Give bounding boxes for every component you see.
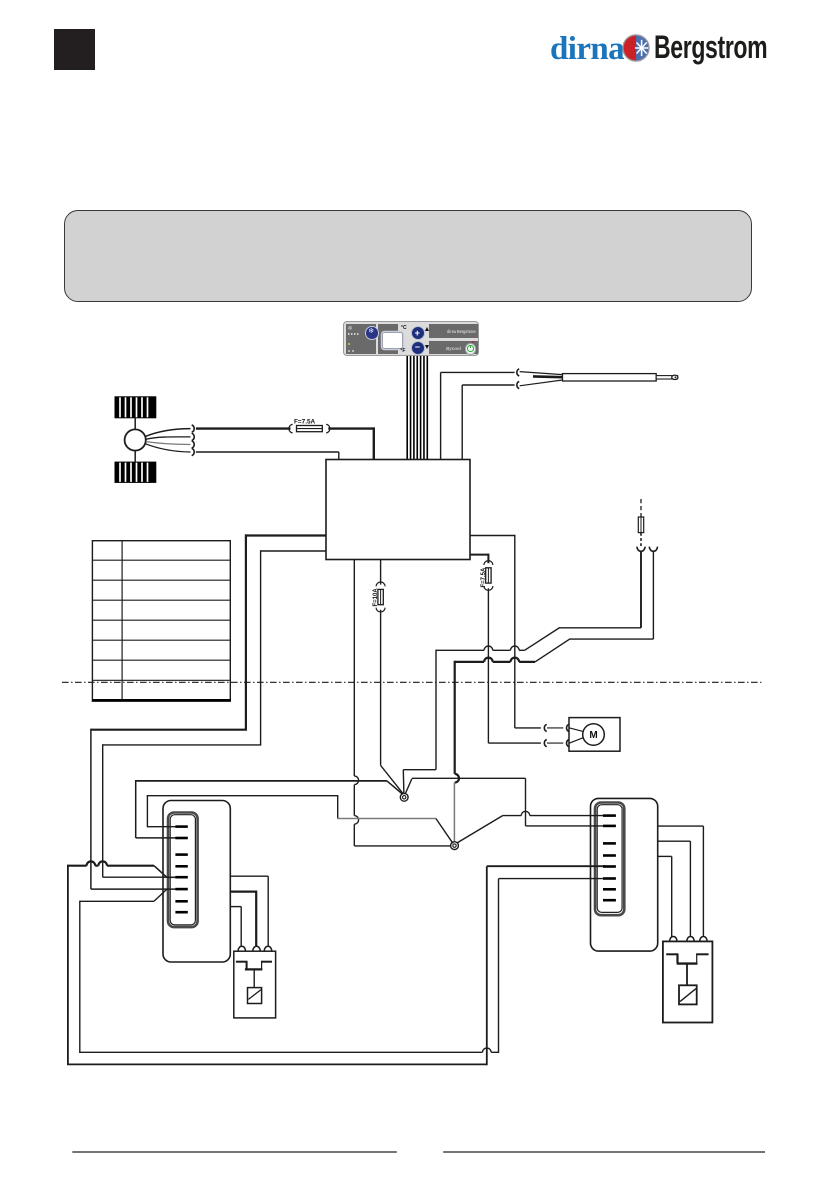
probe taper bottom [520,380,563,386]
ECU box [326,460,470,560]
svg-text:F=7.5A: F=7.5A [294,419,316,426]
motor lead 1 [570,728,584,732]
up triangle [425,327,429,331]
motor hook 1b [567,724,569,731]
logo text dirna [550,31,624,68]
wire ECU to node2 via X1 [354,560,358,846]
wire supply fan 4 [146,444,191,452]
temp up button [411,326,425,340]
lcd display [382,332,403,349]
wire ECU to probe 2 [461,385,463,460]
socket cup right [649,547,657,552]
wire fuse F1 to ECU [328,427,374,429]
supply circle B+ [125,429,146,450]
svg-text:F=7.5A: F=7.5A [481,567,487,588]
fuse F1 clip right [326,424,330,433]
grey rounded banner [64,210,752,302]
footer rule left [72,1151,397,1153]
wire y781 horizontal [135,780,387,782]
relay K2 contact [236,961,248,963]
black corner square [54,29,95,70]
degF label [400,348,405,354]
wire y778 horizontal [412,777,526,779]
wire X2 to K2 86 [230,906,241,908]
probe bulb stub [656,376,677,379]
relay K2 hook 3 [264,946,271,951]
power red led [472,341,474,343]
connector X2 insert inner [170,815,195,925]
wire socket left down [640,551,642,628]
battery hatch block top [115,397,156,418]
relay K2 box [234,951,276,1018]
connector hook K1 pin2 [192,433,195,440]
wire node2 diag to pin1R [456,816,502,844]
wire supply pin4 to ECU [196,451,339,453]
fuse F1 clip left [289,424,293,433]
wire thick vertical to node2 [455,661,459,783]
legend table [92,541,230,702]
wire C up right [498,879,500,1053]
socket cup left [637,547,645,552]
dirna Bergstrom logo [548,30,768,66]
wire D to right pin5 [487,865,606,867]
wire ECU to fuse F2 [380,560,382,585]
panel right upper block [429,324,479,338]
wire supply fan 1 [146,429,191,437]
wire ECU-B down to pin5 [102,744,104,877]
centerline [62,681,761,683]
wire motor link 1 [547,727,563,729]
lower dots [348,350,350,352]
control panel HMI [343,321,479,356]
wire ECU-A down to pin6 [90,729,92,890]
dashed lead to socket [640,533,642,547]
connector hook K1 pin1 [192,425,195,432]
wire supply fan 2 [146,437,191,439]
battery hatch block bottom [115,462,156,482]
fuse F1 body [297,426,323,432]
panel left keypad block [346,324,376,354]
wire C diag to pin6 [154,889,167,901]
connector X3 pins [603,814,616,817]
motor circle M [583,724,605,746]
panel display block [378,324,399,354]
relay K3 box [663,941,713,1022]
wire pin1L loop [147,826,178,828]
wire motor link 2 [547,742,563,744]
bycool italic text [446,346,461,351]
wire D left down [67,865,69,1065]
wire x525 down to pin2R [525,778,527,826]
wire diag to node2 [436,819,453,844]
relay K2 coil [248,988,262,1004]
wire fuse F2 to node1 [380,610,382,766]
wire C to right pin6 [499,878,607,880]
probe taper top [520,372,563,375]
svg-text:F=10A: F=10A [373,588,379,607]
wire pin1L to node2 gray [338,818,436,820]
connector X3 shell [591,798,658,951]
fuse F3 body [486,568,491,583]
wire socket left horizontal [436,646,525,650]
snow mode icon [348,325,353,332]
thermal fuse TH body [638,517,643,533]
temp down button [411,341,425,355]
wire socket left to node1 [435,650,437,770]
relay K3 hook 1 [670,937,677,942]
footer rule right [443,1151,765,1153]
wire D horizontal thick [68,861,154,865]
wire D up right [486,866,488,1065]
wire ECU to probe 1 [440,372,442,460]
snowflake button [365,326,379,340]
node junction N1 [400,793,408,801]
fuse F3 clip bottom [484,586,493,590]
connector X3 insert inner [597,805,622,913]
fuse F2 clip bottom [376,608,385,612]
fuse F3 clip top [484,561,493,565]
wire C bottom [79,1048,498,1052]
wire y781 from pin2 riser [135,781,137,838]
motor box [569,718,620,752]
relay K3 hook 3 [700,937,707,942]
wire ECU-R1 to motor [470,535,515,537]
connector hook K1 pin3 [192,441,195,448]
panel right lower block [429,341,479,354]
relay K3 hook 2 [687,937,694,942]
connector X2 shell [163,801,230,963]
relay K2 hook 2 [253,946,260,951]
wire D bottom [67,1063,487,1065]
connector X2 insert outer [168,813,198,928]
yellow led [348,343,350,345]
motor hook 2b [567,740,569,747]
probe hook 2 [517,381,519,388]
led dots row [348,333,360,335]
wire supply stem bottom [134,451,136,463]
wire X3 to K3 30 [658,840,691,842]
wire C horizontal [80,900,154,902]
logo text Bergstrom [654,29,767,66]
mini logo text [447,329,476,334]
wire C left down [79,901,81,1053]
motor lead 2 [570,738,584,744]
connector X3 insert outer [595,803,624,916]
connector X2 pins [175,825,187,828]
wire ECU-R2 to fuse F3 [470,554,488,556]
relay K2 hook 1 [238,946,245,951]
degC label [401,325,407,331]
wire socket right down [652,551,654,639]
ribbon cable panel to ECU [406,356,408,460]
wire X2 to K2 30 thick [230,890,256,892]
wire X3 to K3 86 [658,855,672,857]
fuse F2 clip top [376,582,385,586]
fuse F2 body [378,589,383,604]
relay K3 stem [686,964,688,986]
motor hook 2a [544,740,546,747]
wire fuse F3 to motor [487,588,489,743]
node junction N2 [451,842,459,850]
connector hook K1 pin4 [192,448,195,455]
wire X2 to K2 87 [230,875,268,877]
wire node1 diag up [405,779,412,796]
svg-text:M: M [589,730,597,741]
probe bulb tip [672,375,678,379]
probe capillary tube [563,374,657,381]
probe hook 1 [517,369,519,376]
wire ECU-B left [261,550,326,552]
relay K3 contact [666,953,678,955]
probe lead [533,375,563,378]
down triangle [425,345,429,349]
wire ECU-A left [246,534,326,536]
relay K3 coil [679,985,697,1004]
power button [465,343,477,355]
motor hook 1a [544,724,546,731]
dashed lead thermal fuse [640,499,642,517]
relay K2 stem [253,969,255,987]
wire supply fan 3 [146,442,191,445]
wire socket right horizontal thick [455,658,535,662]
logo globe icon [622,34,650,62]
wire X3 to K3 87 [658,825,704,827]
wire D diag to pin5 [154,866,167,878]
wire supply stem top [134,418,136,430]
wire battery to fuse F1 [196,427,291,429]
